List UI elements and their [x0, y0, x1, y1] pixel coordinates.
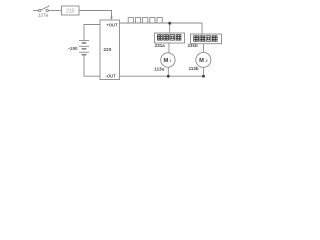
svg-text:–200: –200 — [68, 46, 78, 51]
node junction dot motor 113a on -OUT bus — [167, 75, 170, 78]
svg-text:M: M — [199, 58, 204, 64]
node arrowhead into 220 — [110, 17, 113, 20]
svg-text:210: 210 — [66, 8, 75, 14]
svg-text:-OUT: -OUT — [106, 74, 117, 79]
battery 200 short plate 3 — [82, 54, 87, 56]
battery 200 long plate 3 — [79, 51, 89, 53]
pulse waveform — [128, 18, 162, 23]
wire +OUT bus with pulse waveform baseline — [120, 22, 203, 24]
motor M2 circle 113b — [196, 52, 211, 67]
node junction dot motor 113b on -OUT bus — [202, 75, 205, 78]
svg-text:127a: 127a — [38, 13, 49, 18]
svg-text:113a: 113a — [154, 67, 164, 72]
motor M1 circle 113a — [161, 53, 175, 67]
wire 231b to motor 113b — [203, 44, 205, 53]
svg-text:2: 2 — [205, 59, 207, 63]
svg-text:M: M — [163, 58, 168, 64]
wire -OUT bus — [120, 75, 204, 77]
svg-text:231b: 231b — [187, 43, 198, 48]
wire battery minus to 220 — [84, 55, 100, 76]
wire motor 113b to -OUT bus — [203, 67, 205, 76]
wire box 210 to power circuit 220 — [79, 11, 112, 19]
switch 127a blade — [41, 6, 50, 10]
battery 200 long plate 1 — [79, 40, 89, 42]
switch 127a right contact — [46, 9, 48, 11]
svg-text:+OUT: +OUT — [106, 22, 118, 27]
wire branch to drive circuit 231a — [169, 23, 171, 33]
box power circuit 220 — [100, 20, 120, 80]
wire battery plus to 220 — [84, 25, 100, 41]
battery 200 short plate 2 — [82, 48, 87, 50]
svg-text:1: 1 — [169, 59, 171, 63]
wire switch to box 210 — [49, 10, 62, 12]
label drive-circuit kanji block 2 (駆動回路) — [194, 36, 217, 41]
wire switch input — [33, 10, 38, 12]
battery 200 short plate 1 — [82, 42, 87, 44]
wire motor 113a to -OUT bus — [167, 67, 169, 76]
box drive circuit 231a — [155, 33, 185, 43]
battery 200 long plate 2 — [79, 45, 89, 47]
wire down to drive circuit 231b — [201, 23, 203, 34]
svg-text:231a: 231a — [155, 43, 166, 48]
svg-text:113b: 113b — [189, 66, 199, 71]
box 210 — [62, 6, 80, 15]
node junction dot on +OUT bus — [168, 22, 171, 25]
wire 231a to motor 113a — [168, 43, 170, 53]
switch 127a left contact — [39, 9, 41, 11]
label drive-circuit kanji block 1 (駆動回路) — [158, 35, 181, 40]
box drive circuit 231b — [191, 34, 222, 44]
svg-text:220: 220 — [103, 47, 111, 53]
